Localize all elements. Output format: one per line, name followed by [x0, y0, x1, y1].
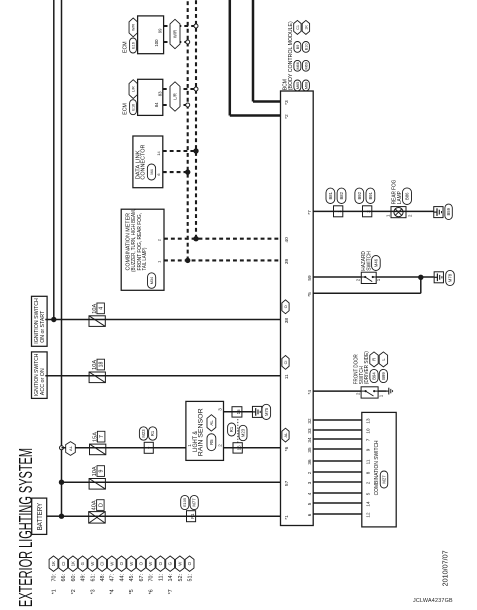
wire data link pin6 to CAN-H bus: [163, 171, 188, 173]
svg-text:*2: *2: [71, 589, 77, 594]
node junction hazard/ BCM *5 return: [418, 275, 423, 280]
wire ECM pin100 to CAN-H bus: [164, 41, 188, 43]
combination switch M27: [362, 412, 396, 527]
wire ECM2 pin83 to CAN-L bus: [163, 88, 196, 90]
svg-text:51:: 51:: [187, 574, 193, 582]
svg-text:M77: M77: [192, 498, 197, 507]
node junction rail1 / fuse4 feed: [51, 317, 56, 322]
svg-text:O: O: [158, 561, 163, 565]
svg-text:C1: C1: [296, 25, 300, 30]
svg-text:ON or START: ON or START: [40, 310, 46, 343]
svg-text:1: 1: [337, 210, 342, 213]
svg-text:W/R: W/R: [131, 24, 135, 31]
fuse 9 10A: [89, 466, 105, 489]
ignition switch ACC or ON: [32, 352, 48, 399]
wire color label AL at pin *6: [282, 428, 289, 442]
svg-text:B92: B92: [357, 191, 362, 199]
svg-text:*4: *4: [110, 589, 116, 594]
svg-text:B10: B10: [304, 44, 308, 51]
svg-text:O: O: [119, 561, 124, 565]
svg-text:*5: *5: [129, 589, 135, 594]
pin 38 (BCM): [284, 318, 290, 324]
svg-text:15: 15: [236, 409, 241, 414]
wire BCM pin 2 to combination switch pin 8: [307, 471, 370, 474]
connector M69: [302, 60, 309, 71]
svg-text:B86: B86: [405, 192, 410, 200]
svg-text:3: 3: [307, 481, 312, 484]
svg-text:M4: M4: [149, 168, 154, 174]
pin *4 (BCM): [307, 390, 313, 395]
svg-text:3: 3: [218, 408, 223, 411]
svg-text:8: 8: [365, 471, 370, 474]
ground B59 (rear fog lamp): [434, 204, 453, 220]
svg-text:P1: P1: [190, 513, 195, 519]
wire 40A fusible link feed to BCM pin *1: [62, 515, 281, 517]
node junction CAN-H / meter pin1: [185, 258, 190, 263]
connector 1K: [302, 20, 309, 34]
wire BCM pin *7 to rear fog lamp: [313, 210, 434, 212]
light and rain sensor R5: [186, 401, 224, 460]
wire ECM pin99 to CAN-L bus: [164, 25, 196, 27]
svg-text:E105: E105: [182, 498, 187, 507]
svg-text:M34: M34: [150, 277, 154, 284]
svg-text:M23: M23: [241, 428, 246, 437]
wire door switch to ground: [378, 390, 387, 392]
wire battery to rail: [47, 515, 62, 517]
svg-text:1K: 1K: [304, 25, 308, 30]
svg-text:L/R: L/R: [131, 86, 135, 92]
connector B10: [302, 42, 309, 53]
svg-text:TAIL LAMP): TAIL LAMP): [142, 247, 148, 270]
svg-text:48:: 48:: [100, 574, 106, 582]
connector M68: [302, 80, 309, 91]
svg-text:R1: R1: [150, 430, 155, 436]
connector pin 7 inline (M23/R1): [139, 427, 156, 454]
footnote legend (pin/wire-color variants *1-*7): [49, 556, 194, 594]
svg-text:38: 38: [284, 318, 290, 324]
fusible link D 40A: [89, 500, 106, 523]
svg-text:2: 2: [407, 214, 412, 217]
svg-text:M46: M46: [373, 258, 378, 267]
svg-text:W: W: [129, 561, 134, 566]
svg-text:M66: M66: [296, 62, 300, 69]
fuse 4 10A: [89, 303, 105, 326]
svg-text:W: W: [109, 561, 114, 566]
svg-text:L/R: L/R: [173, 93, 178, 100]
svg-text:52:: 52:: [178, 574, 184, 582]
svg-text:*6: *6: [149, 589, 155, 594]
svg-text:(DRIVER SIDE): (DRIVER SIDE): [364, 351, 370, 384]
fuse 7 15A: [90, 431, 106, 454]
wire ECM2 pin84 to CAN-H bus: [163, 104, 188, 106]
svg-text:14: 14: [365, 501, 370, 507]
svg-text:44:: 44:: [119, 574, 125, 582]
wire color label W/R (ECM CAN pair): [170, 19, 180, 48]
svg-text:36: 36: [307, 459, 312, 465]
svg-text:M78: M78: [448, 273, 453, 282]
svg-text:4: 4: [307, 492, 312, 495]
wire data link pin14 to CAN-L bus: [163, 150, 196, 152]
svg-text:B91: B91: [368, 191, 373, 199]
data link connector M4: [133, 136, 163, 188]
wire BCM pin 33 to combination switch pin 10: [307, 428, 370, 434]
svg-text:D: D: [98, 503, 104, 507]
svg-text:1: 1: [386, 214, 391, 217]
svg-text:*7: *7: [168, 589, 174, 594]
svg-text:W: W: [90, 561, 95, 566]
connector B9: [294, 42, 301, 53]
svg-text:*1: *1: [284, 515, 290, 520]
svg-text:5: 5: [307, 502, 312, 505]
svg-text:70:: 70:: [51, 574, 57, 582]
svg-text:M23: M23: [141, 429, 146, 438]
connector pin 1 inline (B81/B82): [326, 188, 346, 217]
battery B1: [32, 498, 47, 534]
svg-text:B94: B94: [372, 372, 377, 380]
svg-text:CI: CI: [61, 562, 66, 566]
svg-text:83: 83: [158, 91, 163, 96]
wire return branch to BCM pin *5: [313, 277, 421, 293]
svg-text:ECM: ECM: [123, 103, 129, 115]
wire color label O at pin 38: [282, 300, 289, 314]
svg-text:*2: *2: [284, 114, 290, 119]
svg-text:40: 40: [284, 237, 290, 243]
rear fog lamp B86: [386, 180, 413, 218]
svg-text:11: 11: [365, 459, 370, 464]
svg-text:2010/07/07: 2010/07/07: [440, 550, 449, 586]
node junction battery rail / 40A feed: [59, 514, 64, 519]
svg-text:2: 2: [307, 471, 312, 474]
svg-text:1: 1: [379, 394, 384, 397]
svg-text:2: 2: [356, 392, 361, 395]
svg-text:O: O: [187, 561, 192, 565]
hazard switch M46: [356, 251, 382, 284]
node junction pin6/CAN-H: [185, 169, 190, 174]
wire BCM pin 5 to combination switch pin 14: [307, 501, 370, 507]
pin *6 (BCM): [284, 446, 290, 451]
svg-text:M68: M68: [304, 82, 308, 89]
connector M66: [294, 60, 301, 71]
wire color label L/R (ECM2 CAN pair): [170, 82, 180, 111]
svg-text:M75: M75: [264, 407, 269, 416]
pin 59 (BCM): [307, 275, 313, 281]
svg-text:2: 2: [218, 444, 223, 447]
wire BCM pin 59 to hazard switch: [313, 276, 361, 278]
svg-text:W: W: [148, 561, 153, 566]
ECM U2 connector E16 (second): [123, 79, 163, 115]
connector pin 16 inline (R1/M23): [233, 443, 242, 453]
wire 15A fuse 7 feed to light and rain sensor: [62, 447, 186, 449]
wire BCM pin *4 to front door switch: [313, 390, 361, 392]
node junction pin14/CAN-L: [193, 148, 198, 153]
node tap battery rail / 15A feed: [60, 446, 64, 450]
svg-text:L: L: [381, 358, 386, 361]
svg-text:14:: 14:: [168, 574, 174, 582]
svg-text:E16: E16: [131, 104, 135, 111]
wire color label AL: [66, 442, 76, 456]
pin 40 (BCM): [284, 237, 290, 243]
svg-text:*1: *1: [51, 589, 57, 594]
node connector circle pin84/CAN-H: [186, 103, 190, 107]
connector pin 15 inline: [232, 407, 242, 417]
svg-text:99: 99: [158, 28, 163, 33]
svg-text:R1: R1: [229, 426, 234, 432]
svg-text:M27: M27: [382, 475, 387, 484]
svg-text:66:: 66:: [61, 574, 67, 582]
svg-text:60:: 60:: [71, 574, 77, 582]
svg-text:*4: *4: [307, 390, 313, 395]
node connector circle pin100/CAN-H: [186, 40, 190, 44]
title EXTERIOR LIGHTING SYSTEM: [15, 448, 36, 607]
svg-text:M69: M69: [304, 62, 308, 69]
fuse 18 10A: [89, 359, 105, 382]
wire 10A fuse 9 feed to BCM pin 57: [62, 481, 281, 483]
ECM U1 connector E16: [123, 16, 164, 54]
svg-text:35: 35: [307, 447, 312, 453]
svg-text:CONNECTOR: CONNECTOR: [141, 145, 147, 180]
wire heavy feed to BCM pin *2: [230, 0, 281, 116]
svg-text:57: 57: [284, 480, 290, 486]
pin *7 (BCM): [307, 210, 313, 215]
svg-text:1K: 1K: [51, 561, 56, 566]
svg-text:9: 9: [99, 469, 105, 472]
svg-text:100: 100: [154, 39, 159, 47]
svg-text:7: 7: [99, 435, 105, 438]
svg-text:ACC or ON: ACC or ON: [40, 368, 46, 395]
front door switch driver side B94: [353, 351, 387, 398]
BCM body control module: [281, 21, 314, 526]
svg-text:12: 12: [365, 512, 370, 518]
ground M78 (hazard): [434, 270, 454, 285]
pin *1 (BCM): [284, 515, 290, 520]
svg-text:61:: 61:: [90, 574, 96, 582]
svg-text:32: 32: [307, 418, 312, 424]
svg-text:W/R: W/R: [173, 30, 178, 38]
svg-text:AL: AL: [209, 420, 214, 426]
svg-text:*5: *5: [307, 292, 313, 297]
wire sensor pin3 to ground: [224, 411, 254, 413]
wire color label CI at pin 11: [282, 356, 289, 370]
pin 57 (BCM): [284, 480, 290, 486]
svg-text:59: 59: [307, 275, 313, 281]
svg-text:LAMP: LAMP: [397, 191, 403, 204]
svg-text:R: R: [372, 358, 377, 361]
svg-text:2: 2: [156, 239, 161, 241]
svg-text:6: 6: [307, 513, 312, 516]
svg-text:(BODY CONTROL MODULE): (BODY CONTROL MODULE): [288, 21, 294, 90]
connector M65: [294, 80, 301, 91]
pin 11 (BCM): [284, 374, 290, 379]
svg-text:45:: 45:: [129, 574, 135, 582]
svg-text:AL: AL: [68, 445, 73, 451]
node junction CAN-L / meter pin2: [193, 236, 198, 241]
svg-text:4: 4: [99, 307, 105, 310]
svg-text:34: 34: [307, 437, 312, 443]
wire meter pin2 (CAN-L) to BCM pin 40: [164, 238, 281, 240]
wire CAN-L bus: [195, 0, 197, 239]
svg-text:ECM: ECM: [123, 41, 129, 53]
wire BCM pin 35 to combination switch pin 9: [307, 447, 370, 453]
svg-text:M65: M65: [296, 82, 300, 89]
svg-text:*7: *7: [307, 210, 313, 215]
svg-text:18: 18: [99, 362, 105, 368]
svg-text:2: 2: [366, 210, 371, 213]
date stamp: [440, 550, 449, 586]
svg-text:39: 39: [284, 259, 290, 265]
pin *3 (BCM): [284, 100, 290, 105]
svg-text:R5: R5: [209, 439, 214, 445]
svg-text:14: 14: [156, 151, 161, 156]
svg-text:EXTERIOR LIGHTING SYSTEM: EXTERIOR LIGHTING SYSTEM: [15, 448, 36, 607]
svg-text:1: 1: [187, 444, 192, 447]
svg-text:1K: 1K: [70, 561, 75, 566]
connector join dotted 15-16 with R1 M23 labels: [228, 417, 247, 443]
wire ignition ACC through 10A fuse 18 to BCM pin 11: [45, 375, 280, 377]
svg-text:7: 7: [365, 438, 370, 441]
pin 39 (BCM): [284, 259, 290, 265]
connector C1: [294, 20, 301, 34]
wire hazard switch to ground junction: [376, 276, 434, 278]
svg-text:6: 6: [156, 173, 161, 175]
svg-text:BATTERY: BATTERY: [37, 503, 44, 531]
svg-text:84: 84: [154, 102, 159, 107]
svg-text:O: O: [139, 561, 144, 565]
svg-text:W: W: [177, 561, 182, 566]
node connector circle pin83/CAN-L: [194, 87, 198, 91]
svg-text:CI: CI: [100, 562, 105, 566]
svg-text:*3: *3: [284, 100, 290, 105]
wire BCM pin 3 to combination switch pin 2: [307, 481, 370, 484]
wire heavy feed to BCM pin *3: [253, 0, 281, 102]
svg-text:B81: B81: [328, 191, 333, 199]
svg-text:E16: E16: [131, 42, 135, 49]
svg-text:CI: CI: [284, 360, 288, 364]
svg-text:9: 9: [365, 448, 370, 451]
pin *2 (BCM): [284, 114, 290, 119]
connector P1 inline (E105/M77): [181, 495, 199, 521]
ground M75 (sensor): [252, 404, 270, 419]
svg-text:7: 7: [148, 446, 153, 449]
svg-text:11:: 11:: [158, 574, 164, 581]
svg-text:*3: *3: [90, 589, 96, 594]
svg-text:B99: B99: [381, 372, 386, 380]
wire BCM pin 4 to combination switch pin 5: [307, 492, 370, 495]
svg-text:O: O: [284, 305, 288, 308]
svg-text:33: 33: [307, 428, 312, 434]
wire rail from ignition ON/START to right edge: [53, 0, 55, 320]
svg-text:B59: B59: [446, 207, 451, 215]
svg-text:67:: 67:: [139, 574, 145, 582]
svg-text:B82: B82: [339, 191, 344, 199]
svg-text:1: 1: [156, 261, 161, 263]
svg-text:AL: AL: [284, 433, 288, 438]
svg-text:2: 2: [365, 481, 370, 484]
connector pin 2 inline (B92/B91): [355, 188, 375, 217]
svg-text:B9: B9: [296, 45, 300, 50]
svg-text:COMBINATION SWITCH: COMBINATION SWITCH: [374, 440, 380, 495]
wire sensor pin2 to BCM pin *6: [224, 447, 281, 449]
svg-text:70:: 70:: [149, 574, 155, 582]
svg-text:13: 13: [365, 418, 370, 424]
svg-text:11: 11: [284, 374, 290, 379]
svg-text:5: 5: [365, 492, 370, 495]
combination meter M34: [121, 209, 164, 291]
svg-text:RAIN SENSOR: RAIN SENSOR: [198, 408, 205, 456]
wire BCM pin 34 to combination switch pin 7: [307, 437, 370, 443]
wire CAN-H bus: [187, 0, 189, 260]
svg-text:47:: 47:: [110, 574, 116, 582]
wire BCM pin 36 to combination switch pin 11: [307, 459, 370, 465]
wire ignition ON/START through 10A fuse 4 to BCM pin 38: [45, 319, 280, 321]
svg-text:49:: 49:: [81, 574, 87, 582]
wire battery rail to right edge: [61, 0, 63, 516]
svg-text:G: G: [80, 561, 85, 565]
ignition switch ON or START: [32, 296, 48, 346]
svg-text:16: 16: [236, 445, 241, 450]
svg-text:*6: *6: [284, 446, 290, 451]
node junction battery rail / 10A-9 feed: [59, 480, 64, 485]
svg-text:10: 10: [365, 428, 370, 434]
wire BCM pin 6 to combination switch pin 12: [307, 512, 370, 518]
node connector circle pin99/CAN-L: [194, 24, 198, 28]
wire meter pin1 (CAN-H) to BCM pin 39: [164, 259, 281, 261]
ground (front door switch): [387, 388, 393, 395]
svg-text:1: 1: [376, 278, 381, 281]
svg-text:G: G: [168, 561, 173, 565]
pin *5 (BCM): [307, 292, 313, 297]
svg-text:2: 2: [356, 278, 361, 281]
wire BCM pin 32 to combination switch pin 13: [307, 418, 370, 424]
